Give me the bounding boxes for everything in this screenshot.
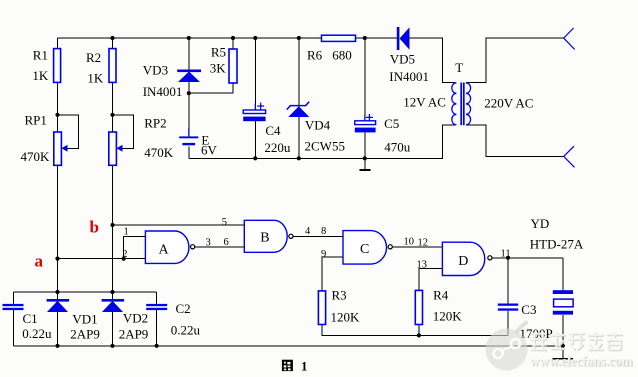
- svg-text:220V AC: 220V AC: [484, 96, 533, 111]
- svg-text:8: 8: [321, 226, 326, 237]
- svg-text:1K: 1K: [32, 68, 49, 83]
- nand gate B: [244, 220, 293, 252]
- svg-text:2AP9: 2AP9: [70, 327, 100, 342]
- svg-text:HTD-27A: HTD-27A: [530, 237, 584, 252]
- svg-text:6V: 6V: [201, 143, 218, 158]
- svg-text:VD1: VD1: [72, 311, 97, 326]
- svg-text:a: a: [35, 252, 44, 271]
- svg-text:T: T: [455, 60, 463, 75]
- potentiometer RP2: [109, 115, 174, 165]
- wire R5 column: [232, 38, 234, 49]
- capacitor C4: [243, 103, 291, 156]
- svg-text:VD5: VD5: [390, 52, 415, 67]
- svg-text:470u: 470u: [384, 140, 411, 155]
- wire C5 column top: [364, 38, 366, 121]
- wire R3 R4 C3 bottom: [322, 325, 508, 336]
- svg-text:0.22u: 0.22u: [171, 323, 201, 338]
- wire secondary top: [466, 38, 564, 82]
- wire C2 column: [156, 292, 158, 346]
- svg-text:470K: 470K: [144, 145, 174, 160]
- node dot 11: [506, 256, 510, 260]
- svg-text:VD3: VD3: [143, 63, 168, 78]
- diode VD1: [47, 299, 100, 342]
- diode VD5: [389, 27, 429, 84]
- svg-text:2CW55: 2CW55: [305, 139, 345, 154]
- wire VD4 column: [298, 38, 300, 158]
- svg-text:470K: 470K: [21, 149, 51, 164]
- node dot VD2 bottom rail: [110, 344, 114, 348]
- svg-text:680: 680: [332, 47, 352, 62]
- node dot VD1 top: [55, 290, 59, 294]
- wire buzzer bottom: [562, 315, 564, 358]
- wire C3 column bottom: [507, 311, 509, 336]
- svg-text:9: 9: [321, 249, 326, 260]
- node dot VD4 bottom: [297, 156, 301, 160]
- svg-text:VD2: VD2: [123, 311, 148, 326]
- svg-text:R6: R6: [307, 47, 323, 62]
- resistor R1: [32, 48, 60, 84]
- svg-text:A: A: [159, 242, 170, 257]
- svg-text:120K: 120K: [331, 310, 361, 325]
- node dot R5 top: [231, 36, 235, 40]
- node dot buzzer rail: [561, 344, 565, 348]
- svg-text:10: 10: [404, 236, 415, 247]
- wire bottom rail: [13, 345, 563, 347]
- wire R1 column: [57, 38, 59, 346]
- ground symbol buzzer: [553, 358, 573, 360]
- watermark text elecfans: [530, 332, 633, 369]
- svg-text:1: 1: [124, 226, 129, 237]
- svg-text:3K: 3K: [210, 61, 227, 76]
- svg-text:13: 13: [417, 259, 428, 270]
- svg-text:C3: C3: [521, 302, 536, 317]
- wire VD3 column: [188, 38, 190, 136]
- wire pin9 branch: [322, 257, 343, 291]
- capacitor C3: [498, 302, 553, 341]
- svg-text:0.22u: 0.22u: [22, 326, 52, 341]
- resistor R3: [318, 288, 360, 325]
- watermark logo: [486, 322, 528, 371]
- svg-text:12V AC: 12V AC: [403, 95, 446, 110]
- nand gate A: [145, 231, 194, 263]
- svg-text:4: 4: [305, 226, 311, 237]
- node dot C4 top: [253, 36, 257, 40]
- resistor R2: [86, 49, 116, 86]
- wire R4 stub: [418, 325, 420, 336]
- node dot R2 top: [110, 36, 114, 40]
- wire C5 column bottom: [364, 132, 366, 158]
- node dot C5 top: [363, 36, 367, 40]
- wire VD5 to transformer corner: [410, 38, 456, 83]
- potentiometer RP1: [21, 112, 68, 165]
- svg-text:120K: 120K: [433, 309, 463, 324]
- capacitor C2: [146, 301, 200, 338]
- wire C1 column: [12, 292, 14, 346]
- wire B output: [293, 235, 343, 237]
- wire C1 C2 top: [13, 291, 156, 293]
- svg-text:2: 2: [122, 249, 127, 260]
- wire C4 column bottom: [254, 121, 256, 158]
- svg-text:D: D: [458, 254, 468, 269]
- svg-text:www.elecfans.com: www.elecfans.com: [530, 354, 633, 369]
- svg-text:R2: R2: [86, 50, 101, 65]
- wire C3 column top: [507, 258, 509, 304]
- svg-text:C1: C1: [23, 311, 38, 326]
- wire a line: [58, 258, 146, 260]
- node dot R4 bottom: [417, 333, 421, 337]
- svg-text:12: 12: [418, 238, 429, 249]
- svg-text:IN4001: IN4001: [143, 84, 183, 99]
- figure label 图 1: [282, 358, 308, 373]
- svg-text:C4: C4: [265, 123, 281, 138]
- wire C output: [393, 246, 443, 248]
- svg-text:1K: 1K: [87, 71, 104, 86]
- wire secondary bottom: [466, 125, 564, 156]
- svg-text:C: C: [360, 242, 369, 257]
- resistor R4: [415, 288, 462, 325]
- svg-text:C5: C5: [384, 116, 399, 131]
- wire pin13 branch: [419, 269, 443, 291]
- svg-text:YD: YD: [531, 216, 550, 231]
- terminal chevron top: [564, 28, 575, 50]
- node dot VD1 bottom rail: [55, 344, 59, 348]
- wire buzzer top: [562, 258, 564, 290]
- wire R2 column: [112, 38, 114, 346]
- svg-text:6: 6: [224, 237, 229, 248]
- nand gate D: [442, 242, 492, 275]
- node dot VD3 bottom: [187, 91, 191, 95]
- buzzer YD: [530, 216, 584, 315]
- wire power bottom rail: [189, 125, 455, 158]
- nand gate C: [343, 231, 392, 265]
- node dot C2 bottom rail: [155, 344, 159, 348]
- svg-text:b: b: [90, 217, 99, 236]
- svg-text:R4: R4: [433, 288, 449, 303]
- resistor R5: [210, 45, 237, 84]
- svg-text:IN4001: IN4001: [389, 69, 429, 84]
- capacitor C1: [3, 304, 52, 341]
- zener diode VD4: [287, 102, 345, 154]
- svg-text:1: 1: [301, 358, 308, 373]
- node dot C4 bottom: [253, 156, 257, 160]
- svg-text:11: 11: [501, 248, 511, 259]
- wire D output: [492, 257, 563, 259]
- svg-text:3: 3: [206, 237, 211, 248]
- svg-text:R3: R3: [332, 288, 347, 303]
- svg-text:VD4: VD4: [305, 118, 331, 133]
- wire pin1 branch: [124, 237, 146, 259]
- wire top rail: [58, 37, 397, 39]
- node dot VD2 top: [110, 290, 114, 294]
- node dot RP1 tap: [55, 113, 59, 117]
- battery E: [179, 128, 217, 157]
- wire C4 column top: [254, 38, 256, 110]
- resistor R6: [307, 35, 356, 62]
- wire RP2 wiper loop: [113, 115, 134, 149]
- svg-text:RP2: RP2: [144, 115, 166, 130]
- terminal chevron bottom: [564, 146, 575, 167]
- node dot C5 bottom: [363, 156, 367, 160]
- wire b line: [113, 224, 245, 226]
- svg-text:2AP9: 2AP9: [119, 327, 149, 342]
- node a dot: [55, 257, 59, 261]
- node dot VD4 top: [297, 36, 301, 40]
- svg-text:R1: R1: [33, 48, 48, 63]
- node dot VD3 top: [187, 36, 191, 40]
- capacitor C5: [355, 114, 411, 155]
- svg-text:RP1: RP1: [25, 112, 47, 127]
- wire A output: [195, 246, 244, 248]
- diode VD2: [102, 299, 149, 342]
- svg-text:R5: R5: [211, 45, 226, 60]
- diode VD3: [143, 63, 201, 100]
- wire RP1 wiper loop: [58, 115, 79, 149]
- node dot RP2 tap: [110, 113, 114, 117]
- node b dot: [110, 223, 114, 227]
- ground symbol C5: [359, 169, 370, 171]
- node dot pin1 branch: [122, 257, 126, 261]
- svg-text:C2: C2: [176, 301, 191, 316]
- transformer T: [452, 60, 471, 125]
- wire battery to rail: [188, 147, 190, 159]
- wire ground stub C5: [364, 158, 366, 170]
- svg-text:B: B: [260, 231, 269, 246]
- svg-text:220u: 220u: [264, 140, 291, 155]
- wire R5 bottom to VD3 junction: [189, 83, 233, 93]
- svg-text:5: 5: [222, 217, 227, 228]
